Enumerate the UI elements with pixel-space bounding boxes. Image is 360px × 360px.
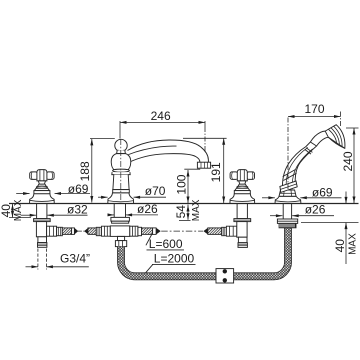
hose nut (dark band) [279,223,296,227]
svg-text:188: 188 [78,161,92,181]
deck line [9,203,359,205]
svg-text:L=2000: L=2000 [154,252,195,266]
left handle (cold) above deck [30,170,55,204]
spout column [108,139,211,203]
dimension 191 (spout height) [183,138,227,203]
holder skirt [275,196,301,203]
locknut flange [111,217,129,221]
handle grip (curved) [283,142,317,190]
svg-text:G3/4”: G3/4” [60,252,90,266]
svg-text:191: 191 [209,162,223,182]
tee left port nut [102,226,111,236]
svg-text:ø70: ø70 [145,184,166,198]
dimension 240 (shower height) [346,128,359,203]
right flexible supply hose [142,226,237,236]
side port hex nut [47,226,57,236]
G3/4 threaded tail [38,237,47,243]
dimension 40 MAX left [9,204,31,218]
centerline through column [120,139,122,200]
left flexible supply hose [62,226,110,236]
svg-text:MAX: MAX [347,233,358,255]
dimension 100 (outlet height) [184,169,200,203]
right handle port nut [226,226,236,236]
ferrule [222,227,227,235]
valve body [36,222,46,237]
svg-text:ø69: ø69 [312,186,333,200]
svg-text:240: 240 [341,151,355,171]
dimension 54 MAX (spout deck max) [179,205,191,221]
dimension o69 left handle [16,193,90,195]
label L=600 [146,235,184,250]
bottom hex nut [115,241,126,247]
svg-text:ø26: ø26 [137,202,158,216]
svg-text:40: 40 [0,204,13,218]
dimension o70 spout base [98,196,166,198]
tee body [110,226,130,237]
deck flange locknut [34,219,51,222]
spout base tee below deck [110,204,141,247]
long shower hose L=2000 (braided) [121,227,288,276]
tapering column [113,175,129,190]
threaded stem [37,204,47,219]
hose ferrule [57,227,63,235]
spray face rings [334,126,343,147]
dimension 246 (spout reach) [120,121,205,151]
grip butt joint band [283,173,296,180]
dimension o26 shower shank [270,215,334,217]
dimension 40 MAX right [301,192,359,265]
svg-text:ø26: ø26 [305,203,326,217]
right handle (hot) above deck [230,170,255,204]
grip end nut [280,181,297,192]
threaded shank o26 [114,204,125,218]
hose ferrule at tee [96,227,101,235]
dimension o26 spout shank [108,214,158,216]
centerline between hose halves [78,230,85,232]
svg-text:MAX: MAX [191,199,202,221]
svg-text:ø69: ø69 [68,182,89,196]
svg-text:246: 246 [151,109,171,123]
svg-text:100: 100 [174,174,188,194]
spray head cone [325,125,345,149]
spout arm [128,140,209,162]
dimension 188 (spout body height) [90,139,115,203]
dimension 170 (shower offset) [288,112,341,190]
dimension o69 shower holder [262,197,342,199]
svg-text:MAX: MAX [13,199,24,221]
svg-text:L=600: L=600 [149,237,183,251]
ball finial [115,139,127,151]
bottom outlet tube [118,236,125,240]
left handle below-deck body [34,204,63,248]
neck elbow [310,131,325,142]
ferrule [138,227,142,235]
bulb [111,154,131,171]
hand shower [280,125,345,193]
base skirt [108,193,134,204]
svg-text:54: 54 [174,205,188,219]
outlet aerator [197,162,210,168]
svg-text:40: 40 [333,239,347,253]
dimension G3/4 thread [26,249,89,270]
locknut flange [277,219,297,223]
svg-text:ø32: ø32 [67,202,88,216]
label L=2000 [146,264,196,273]
shower holder [275,190,301,228]
svg-text:170: 170 [305,102,325,116]
holder hex nut [279,190,296,196]
tee right port nut [130,226,138,236]
shank [283,204,291,220]
joint ring [305,149,311,154]
right handle below-deck body [234,204,251,248]
hose slide connector [216,269,234,283]
dimension o32 left handle stem [21,214,88,216]
